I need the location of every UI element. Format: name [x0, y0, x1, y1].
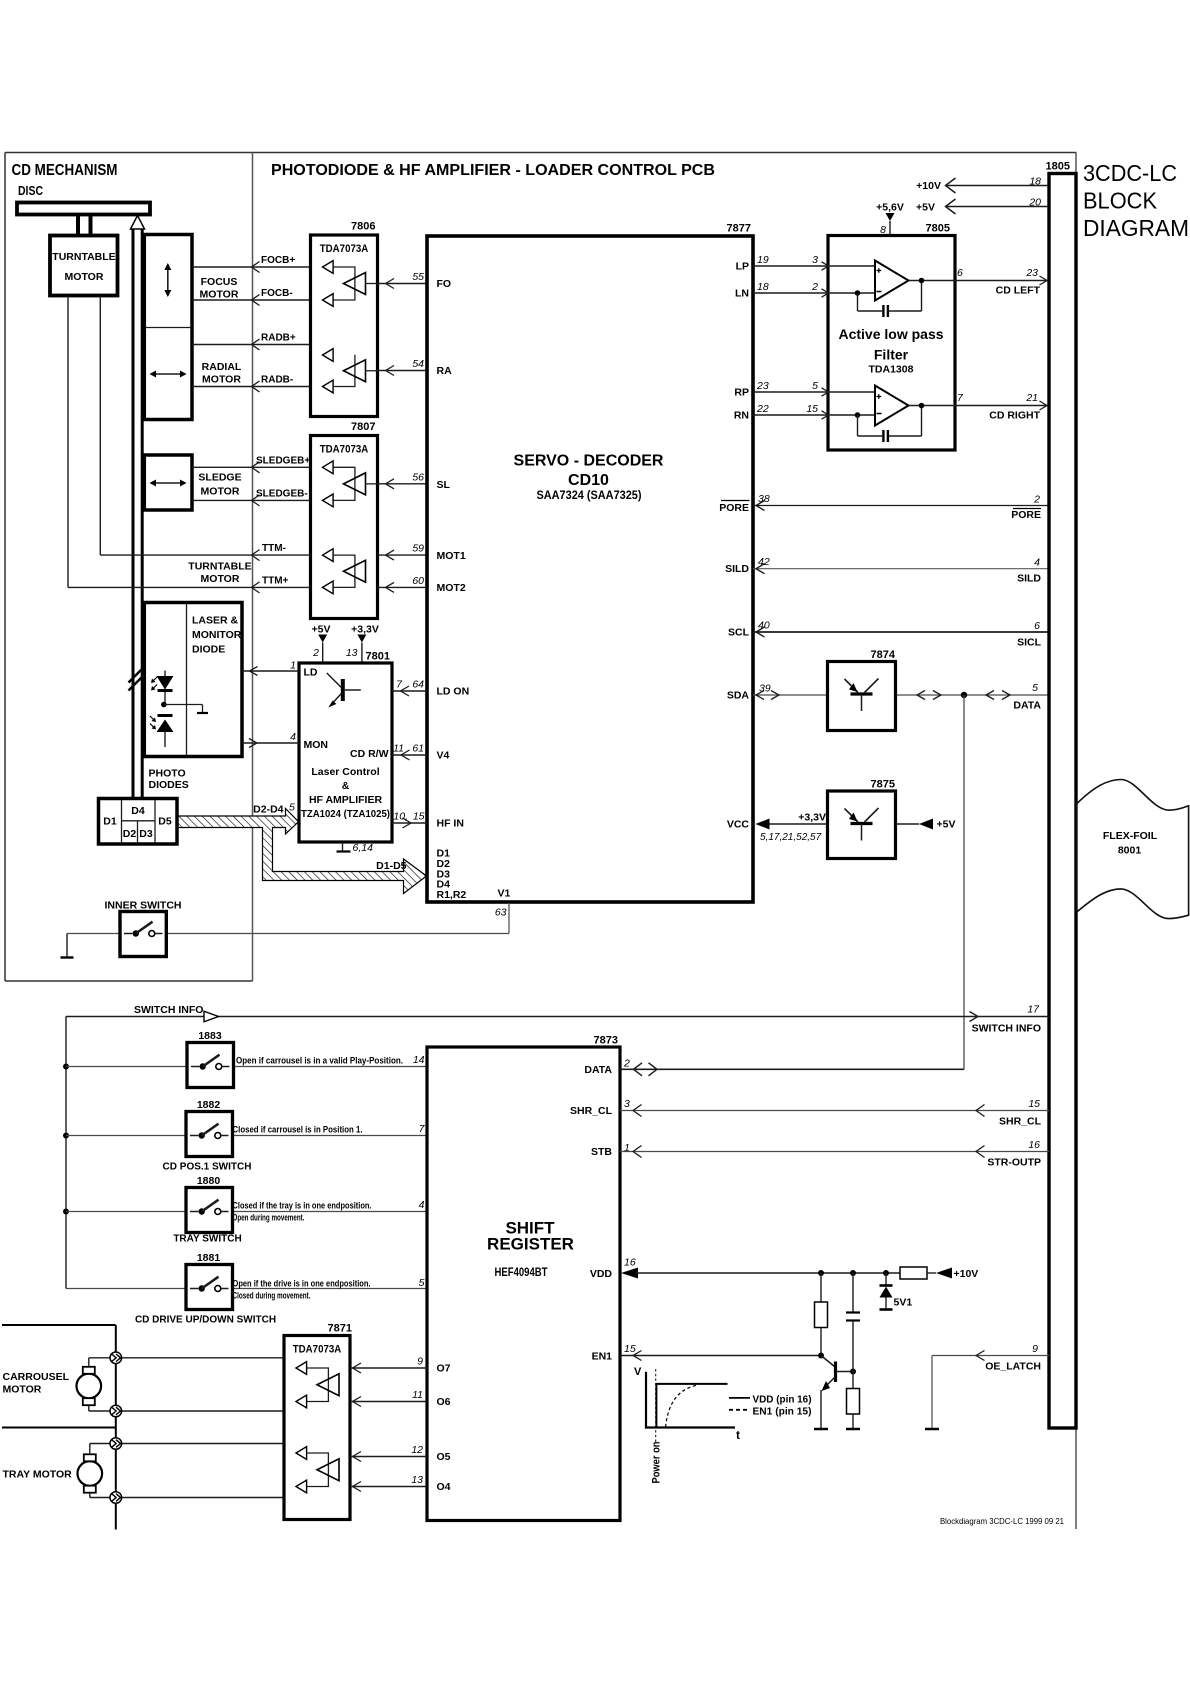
svg-text:Power on: Power on — [651, 1441, 663, 1483]
svg-text:DIODE: DIODE — [192, 644, 225, 656]
svg-text:SWITCH INFO: SWITCH INFO — [134, 1004, 203, 1016]
svg-text:D5: D5 — [158, 816, 172, 828]
svg-text:Open if carrousel is in a vali: Open if carrousel is in a valid Play-Pos… — [236, 1056, 403, 1066]
svg-text:Closed during movement.: Closed during movement. — [233, 1291, 311, 1301]
svg-text:42: 42 — [758, 556, 770, 568]
svg-text:Closed if carrousel is in Posi: Closed if carrousel is in Position 1. — [233, 1125, 363, 1135]
svg-text:23: 23 — [1025, 267, 1038, 279]
svg-text:SWITCH INFO: SWITCH INFO — [972, 1023, 1041, 1035]
svg-text:9: 9 — [1032, 1343, 1038, 1355]
svg-text:+5V: +5V — [312, 624, 331, 636]
svg-text:D2: D2 — [123, 828, 137, 840]
svg-text:O4: O4 — [437, 1481, 451, 1493]
svg-text:23: 23 — [756, 380, 769, 392]
svg-text:LD: LD — [304, 667, 318, 679]
svg-text:INNER SWITCH: INNER SWITCH — [105, 900, 182, 912]
svg-text:FOCUS: FOCUS — [201, 276, 238, 288]
svg-text:MOTOR: MOTOR — [201, 573, 240, 585]
svg-text:RN: RN — [734, 410, 749, 422]
svg-text:11: 11 — [393, 743, 404, 755]
svg-text:LD ON: LD ON — [437, 686, 470, 698]
svg-text:VDD (pin 16): VDD (pin 16) — [753, 1394, 812, 1406]
svg-text:DATA: DATA — [584, 1064, 612, 1076]
svg-text:59: 59 — [412, 543, 424, 555]
svg-text:4: 4 — [290, 731, 296, 743]
svg-text:2: 2 — [312, 647, 319, 659]
svg-text:CD POS.1 SWITCH: CD POS.1 SWITCH — [163, 1162, 252, 1173]
svg-text:TDA1308: TDA1308 — [869, 364, 914, 376]
svg-text:5: 5 — [289, 802, 295, 814]
svg-text:63: 63 — [495, 907, 507, 919]
svg-text:13: 13 — [411, 1474, 423, 1486]
svg-text:Closed if the tray is in one e: Closed if the tray is in one endposition… — [233, 1201, 372, 1211]
svg-text:SL: SL — [437, 479, 451, 491]
svg-text:3: 3 — [812, 254, 818, 266]
svg-text:SLEDGE: SLEDGE — [198, 472, 241, 484]
svg-text:64: 64 — [412, 679, 424, 691]
svg-text:20: 20 — [1028, 197, 1041, 209]
svg-text:D1-D5: D1-D5 — [376, 860, 407, 872]
svg-text:+5V: +5V — [937, 819, 956, 831]
svg-text:SHR_CL: SHR_CL — [570, 1105, 613, 1117]
svg-text:15: 15 — [1028, 1098, 1040, 1110]
svg-text:TRAY SWITCH: TRAY SWITCH — [173, 1234, 241, 1245]
svg-text:18: 18 — [1029, 176, 1041, 188]
svg-text:MOTOR: MOTOR — [3, 1384, 42, 1396]
svg-text:16: 16 — [1028, 1139, 1040, 1151]
svg-text:9: 9 — [417, 1356, 423, 1368]
svg-text:EN1: EN1 — [592, 1351, 613, 1363]
svg-text:6,14: 6,14 — [353, 842, 374, 854]
svg-text:FOCB+: FOCB+ — [261, 255, 295, 266]
svg-text:V1: V1 — [498, 888, 511, 900]
svg-text:EN1 (pin 15): EN1 (pin 15) — [753, 1406, 812, 1418]
svg-text:D3: D3 — [139, 828, 153, 840]
svg-text:LASER &: LASER & — [192, 615, 239, 627]
svg-text:14: 14 — [413, 1054, 425, 1066]
svg-text:D1: D1 — [103, 816, 117, 828]
svg-text:RADB-: RADB- — [261, 375, 293, 386]
svg-text:TTM-: TTM- — [262, 543, 286, 554]
svg-text:5: 5 — [812, 380, 818, 392]
svg-text:DIODES: DIODES — [149, 779, 189, 791]
svg-text:HF IN: HF IN — [437, 818, 464, 830]
svg-text:SICL: SICL — [1017, 637, 1042, 649]
svg-text:FLEX-FOIL: FLEX-FOIL — [1103, 830, 1158, 842]
svg-text:TRAY MOTOR: TRAY MOTOR — [3, 1469, 73, 1481]
svg-text:7805: 7805 — [926, 223, 950, 235]
svg-text:5: 5 — [419, 1277, 425, 1289]
svg-text:TDA7073A: TDA7073A — [320, 444, 369, 456]
svg-text:5V1: 5V1 — [894, 1297, 913, 1309]
svg-text:MON: MON — [304, 739, 329, 751]
svg-text:LN: LN — [735, 288, 749, 300]
svg-text:1881: 1881 — [197, 1252, 221, 1264]
svg-text:MONITOR: MONITOR — [192, 629, 242, 641]
svg-text:O5: O5 — [437, 1451, 451, 1463]
svg-text:SHR_CL: SHR_CL — [999, 1116, 1042, 1128]
svg-text:PHOTO: PHOTO — [149, 768, 186, 780]
svg-text:10,: 10, — [393, 811, 408, 823]
svg-text:60: 60 — [412, 575, 424, 587]
svg-text:18: 18 — [757, 281, 769, 293]
svg-text:1: 1 — [290, 660, 296, 672]
svg-text:CD MECHANISM: CD MECHANISM — [12, 162, 118, 179]
svg-text:TURNTABLE: TURNTABLE — [188, 561, 251, 573]
svg-text:V4: V4 — [437, 750, 450, 762]
svg-text:TDA7073A: TDA7073A — [320, 243, 369, 255]
svg-text:7877: 7877 — [727, 223, 751, 235]
svg-text:LP: LP — [736, 261, 749, 273]
svg-text:22: 22 — [756, 403, 769, 415]
svg-text:1883: 1883 — [198, 1030, 222, 1042]
svg-text:PHOTODIODE & HF AMPLIFIER - LO: PHOTODIODE & HF AMPLIFIER - LOADER CONTR… — [271, 162, 715, 179]
svg-text:15: 15 — [806, 403, 818, 415]
svg-text:t: t — [736, 1428, 740, 1442]
svg-text:Blockdiagram 3CDC-LC 1999 09 2: Blockdiagram 3CDC-LC 1999 09 21 — [940, 1516, 1064, 1526]
svg-text:13: 13 — [346, 647, 358, 659]
svg-text:SILD: SILD — [1017, 573, 1041, 585]
svg-text:&: & — [342, 780, 350, 792]
svg-text:5,17,21,52,57: 5,17,21,52,57 — [760, 832, 822, 843]
svg-text:Filter: Filter — [874, 347, 909, 363]
svg-text:+10V: +10V — [954, 1268, 979, 1280]
svg-text:+5,6V: +5,6V — [876, 202, 904, 214]
svg-text:7873: 7873 — [594, 1035, 618, 1047]
svg-text:8: 8 — [880, 224, 886, 236]
svg-text:7807: 7807 — [351, 421, 375, 433]
svg-text:STR-OUTP: STR-OUTP — [987, 1157, 1041, 1169]
svg-text:RADB+: RADB+ — [261, 333, 296, 344]
svg-text:61: 61 — [412, 743, 424, 755]
svg-text:STB: STB — [591, 1146, 612, 1158]
svg-text:15: 15 — [413, 811, 425, 823]
svg-text:55: 55 — [412, 271, 424, 283]
svg-text:O7: O7 — [437, 1363, 451, 1375]
svg-text:19: 19 — [757, 254, 769, 266]
svg-text:DATA: DATA — [1013, 700, 1041, 712]
svg-text:HEF4094BT: HEF4094BT — [495, 1267, 548, 1279]
svg-text:SILD: SILD — [725, 563, 749, 575]
svg-text:1: 1 — [624, 1142, 630, 1154]
svg-text:REGISTER: REGISTER — [487, 1235, 574, 1254]
svg-text:MOTOR: MOTOR — [201, 486, 240, 498]
svg-text:6: 6 — [1034, 620, 1040, 632]
svg-text:TZA1024 (TZA1025): TZA1024 (TZA1025) — [301, 808, 390, 820]
svg-text:CD R/W: CD R/W — [350, 748, 389, 760]
svg-text:11: 11 — [412, 1389, 423, 1401]
svg-text:54: 54 — [412, 358, 424, 370]
svg-text:2: 2 — [623, 1058, 630, 1070]
svg-text:SCL: SCL — [728, 627, 750, 639]
svg-text:1805: 1805 — [1046, 161, 1070, 173]
svg-text:8001: 8001 — [1118, 845, 1142, 857]
svg-text:BLOCK: BLOCK — [1083, 188, 1157, 214]
svg-text:12: 12 — [411, 1444, 423, 1456]
svg-text:PORE: PORE — [719, 502, 749, 514]
svg-text:PORE: PORE — [1011, 509, 1041, 521]
svg-text:D4: D4 — [131, 805, 145, 817]
svg-text:TDA7073A: TDA7073A — [293, 1344, 342, 1356]
svg-text:OE_LATCH: OE_LATCH — [985, 1361, 1041, 1373]
svg-text:Active low pass: Active low pass — [838, 326, 943, 342]
svg-text:SDA: SDA — [727, 690, 750, 702]
svg-text:R1,R2: R1,R2 — [437, 889, 467, 901]
svg-text:7871: 7871 — [328, 1323, 352, 1335]
svg-text:16: 16 — [624, 1257, 636, 1269]
svg-text:MOTOR: MOTOR — [200, 289, 239, 301]
svg-text:2: 2 — [811, 281, 818, 293]
svg-text:+3,3V: +3,3V — [351, 624, 379, 636]
svg-text:38: 38 — [758, 493, 770, 505]
svg-text:Open during movement.: Open during movement. — [233, 1213, 305, 1223]
svg-text:DIAGRAM: DIAGRAM — [1083, 215, 1189, 241]
svg-text:VCC: VCC — [727, 819, 750, 831]
svg-text:21: 21 — [1025, 392, 1038, 404]
svg-text:5: 5 — [1032, 682, 1038, 694]
svg-text:7874: 7874 — [871, 649, 896, 661]
svg-text:SAA7324 (SAA7325): SAA7324 (SAA7325) — [537, 488, 642, 502]
svg-text:O6: O6 — [437, 1396, 451, 1408]
svg-text:SLEDGEB-: SLEDGEB- — [256, 488, 308, 499]
svg-text:V: V — [634, 1366, 642, 1378]
svg-text:2: 2 — [1033, 494, 1040, 506]
svg-text:VDD: VDD — [590, 1268, 613, 1280]
svg-text:Open if the drive is in one en: Open if the drive is in one endposition. — [233, 1279, 371, 1289]
svg-text:4: 4 — [1034, 557, 1040, 569]
svg-text:TURNTABLE: TURNTABLE — [52, 251, 115, 263]
svg-text:RADIAL: RADIAL — [202, 361, 242, 373]
svg-text:56: 56 — [412, 471, 424, 483]
svg-text:7801: 7801 — [366, 651, 390, 663]
svg-text:1882: 1882 — [197, 1099, 221, 1111]
svg-text:RP: RP — [734, 387, 749, 399]
svg-text:3CDC-LC: 3CDC-LC — [1083, 160, 1177, 186]
svg-text:Laser Control: Laser Control — [311, 766, 379, 778]
svg-text:DISC: DISC — [18, 183, 43, 198]
svg-text:CD RIGHT: CD RIGHT — [989, 410, 1040, 422]
svg-text:CD DRIVE UP/DOWN SWITCH: CD DRIVE UP/DOWN SWITCH — [135, 1315, 276, 1326]
svg-text:RA: RA — [437, 365, 453, 377]
svg-text:4: 4 — [419, 1199, 425, 1211]
svg-text:D2-D4: D2-D4 — [253, 804, 284, 816]
svg-text:HF AMPLIFIER: HF AMPLIFIER — [309, 794, 383, 806]
svg-text:CD10: CD10 — [568, 472, 609, 489]
svg-text:6: 6 — [957, 267, 963, 279]
svg-text:+3,3V: +3,3V — [798, 812, 826, 824]
svg-text:CD LEFT: CD LEFT — [996, 285, 1041, 297]
svg-text:7806: 7806 — [351, 221, 375, 233]
svg-text:FOCB-: FOCB- — [261, 288, 293, 299]
svg-text:MOT2: MOT2 — [437, 582, 466, 594]
svg-text:SLEDGEB+: SLEDGEB+ — [256, 455, 310, 466]
svg-text:3: 3 — [624, 1098, 630, 1110]
svg-text:7875: 7875 — [871, 779, 895, 791]
svg-text:1880: 1880 — [197, 1175, 221, 1187]
svg-text:SERVO - DECODER: SERVO - DECODER — [514, 453, 664, 470]
svg-text:TTM+: TTM+ — [262, 575, 289, 586]
svg-text:40: 40 — [758, 620, 770, 632]
svg-text:15: 15 — [624, 1343, 636, 1355]
svg-text:MOTOR: MOTOR — [65, 271, 104, 283]
svg-text:+10V: +10V — [916, 180, 941, 192]
svg-text:MOT1: MOT1 — [437, 550, 466, 562]
svg-text:+5V: +5V — [916, 202, 935, 214]
svg-text:CARROUSEL: CARROUSEL — [3, 1371, 70, 1383]
svg-text:MOTOR: MOTOR — [202, 374, 241, 386]
svg-text:39: 39 — [759, 683, 771, 695]
svg-text:FO: FO — [437, 278, 452, 290]
svg-text:17: 17 — [1027, 1004, 1040, 1016]
